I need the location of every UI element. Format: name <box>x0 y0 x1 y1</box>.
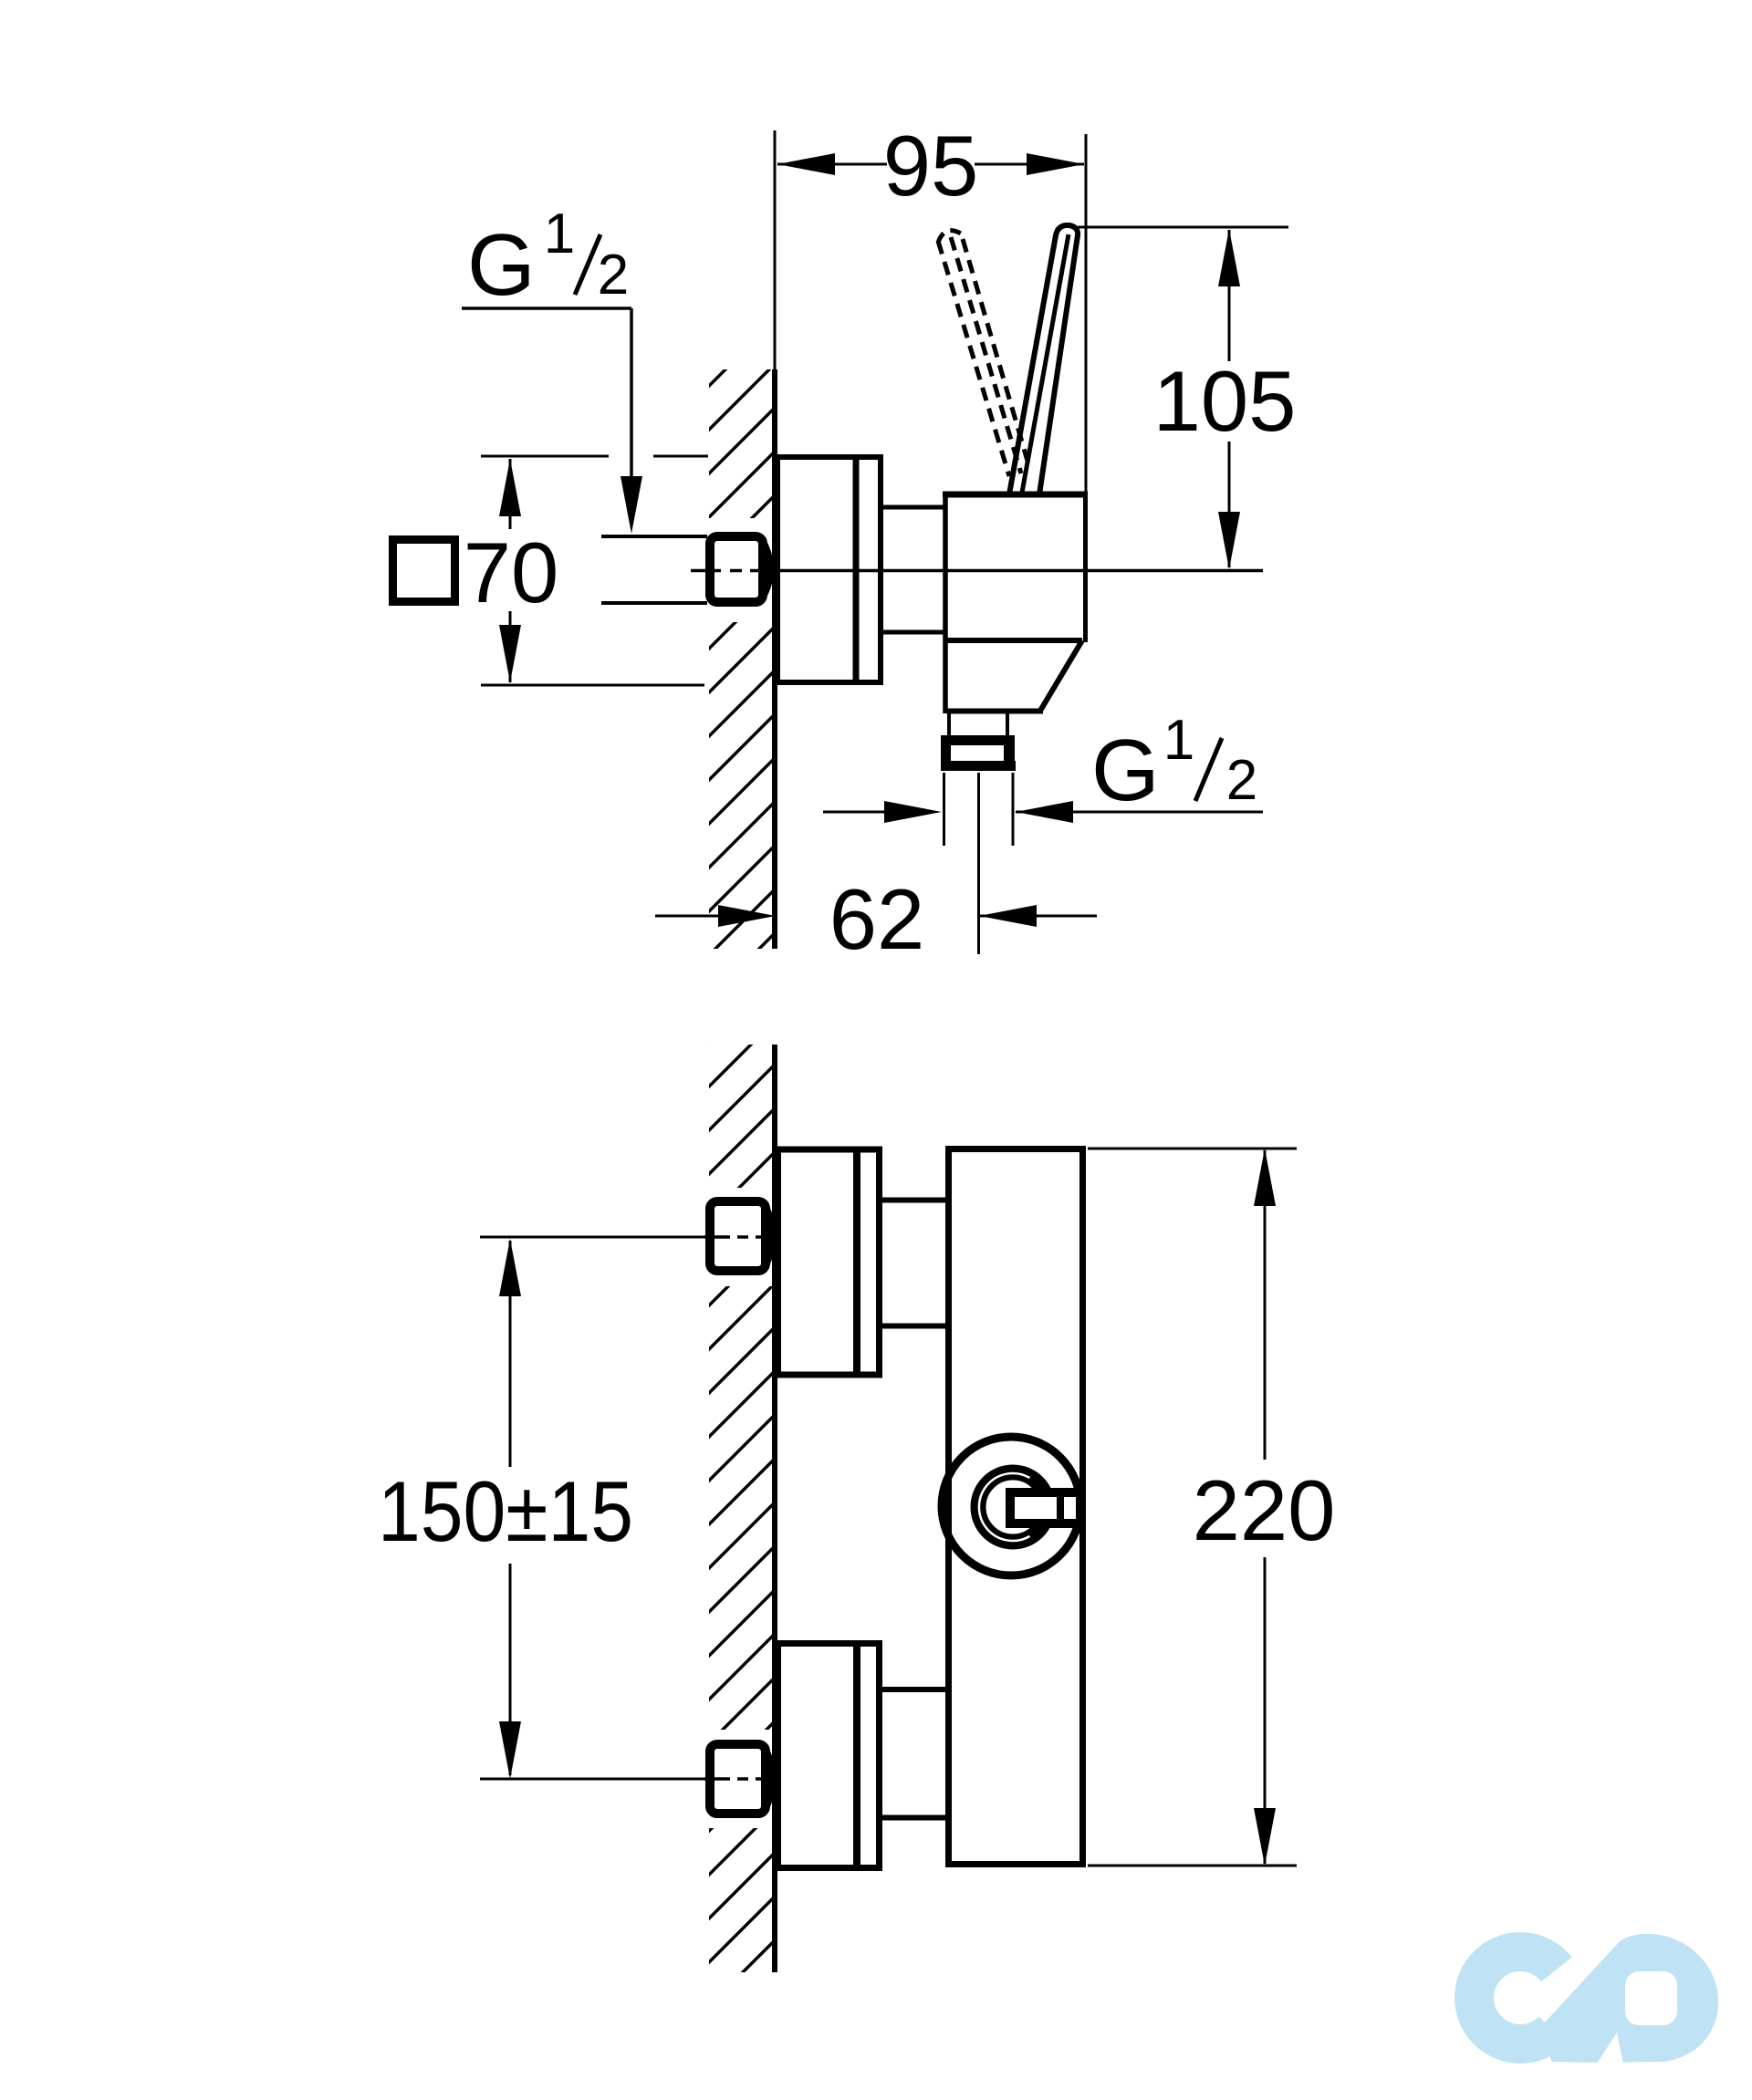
escutcheon flange side view <box>777 457 881 682</box>
upper nut chamfer arc <box>766 1208 772 1264</box>
lever dashed position line 1 <box>938 241 1009 476</box>
inlet pipe bottom line <box>601 601 707 605</box>
70 dim lower extension line <box>481 684 704 687</box>
G 1/2 lower dim right arrow <box>1016 801 1073 823</box>
105 dim top extension line <box>1078 226 1288 229</box>
hatch clear zone around top-view nut <box>689 518 772 622</box>
220 dim down arrow <box>1254 1808 1276 1866</box>
svg-text:150±15: 150±15 <box>378 1463 633 1559</box>
escutcheon inner line side view <box>853 458 860 681</box>
150 dim up arrow <box>499 1239 521 1296</box>
upper union nut front view <box>710 1201 766 1271</box>
body bottom edge side view <box>946 709 1043 714</box>
svg-text:105: 105 <box>1153 353 1297 449</box>
150 dim upper extension line <box>480 1236 704 1239</box>
150 dim line upper segment <box>509 1241 512 1467</box>
95 dim right extension line <box>1085 134 1088 493</box>
outlet nut left wall <box>941 743 951 763</box>
knob inner ring <box>978 1472 1048 1542</box>
union nut top view <box>710 536 763 602</box>
wall extension line (95 dim left extension) <box>774 130 777 369</box>
G 1/2 lower extension line left <box>943 773 945 846</box>
lower neck bottom line front view <box>881 1815 946 1821</box>
G 1/2 top leader arrow <box>620 476 642 534</box>
body mid line side view <box>946 638 1082 643</box>
upper escutcheon inner line <box>853 1148 860 1376</box>
105 dim up arrow <box>1218 229 1240 286</box>
neck top line side view <box>881 505 946 510</box>
neck bottom line side view <box>881 630 946 635</box>
G 1/2 lower dim line left <box>823 811 885 814</box>
main centre line top view <box>777 569 1263 573</box>
union nut chamfer arc top view <box>763 543 770 596</box>
svg-text:1: 1 <box>544 203 575 265</box>
wall face line top view <box>772 369 777 949</box>
outlet stub left line <box>947 713 951 737</box>
svg-text:220: 220 <box>1193 1462 1336 1558</box>
lever dashed position line 3 <box>963 239 1029 467</box>
150 dim line lower segment <box>509 1564 512 1775</box>
95 dim line left segment <box>777 163 887 166</box>
lower nut chamfer arc <box>766 1751 772 1807</box>
upper escutcheon front view <box>778 1149 880 1375</box>
G 1/2 lower label fraction slash <box>1195 738 1222 801</box>
upper neck top line front view <box>881 1198 946 1203</box>
150 dim lower extension line <box>480 1778 704 1781</box>
lever solid outline <box>1009 225 1078 494</box>
upper nut centre dash-dot <box>704 1235 777 1239</box>
outlet nut upper band <box>941 735 1015 745</box>
220 dim line upper segment <box>1264 1150 1267 1460</box>
logo letter D hole <box>1625 1971 1677 2025</box>
body left edge side view <box>943 493 948 713</box>
knob inner ring white arc <box>979 1473 1030 1541</box>
inlet pipe top line <box>601 535 707 538</box>
lower union nut front view <box>710 1744 766 1814</box>
G 1/2 lower extension line right <box>1012 773 1015 846</box>
220 dim upper extension line <box>1088 1148 1297 1150</box>
62 dim right arrow <box>979 905 1037 927</box>
lever dashed cap <box>938 231 961 243</box>
outlet stub right line <box>1006 713 1009 737</box>
62 dim left arrow <box>718 905 776 927</box>
knob handle tip window <box>1064 1497 1076 1519</box>
70 dim line lower segment <box>509 611 512 682</box>
svg-text:G: G <box>1091 722 1160 819</box>
lower escutcheon inner line <box>853 1642 860 1869</box>
95 dim line right segment <box>975 163 1084 166</box>
body top edge side view <box>943 492 1088 498</box>
70 dim up arrow <box>499 459 521 516</box>
hatch clear zone around upper nut bottom view <box>687 1188 772 1286</box>
svg-text:2: 2 <box>598 244 629 307</box>
wall hatching bottom view <box>709 1045 775 1972</box>
62 dim line right <box>979 915 1097 918</box>
wall hatching top view <box>709 369 775 949</box>
220 dim up arrow <box>1254 1149 1276 1206</box>
logo strand gap wedge <box>1593 2032 1624 2069</box>
logo letter C <box>1474 1951 1556 2043</box>
220 dim line lower segment <box>1264 1557 1267 1864</box>
G 1/2 lower dim line right <box>1016 811 1263 814</box>
faucet body front view <box>949 1149 1083 1865</box>
70 dim down arrow <box>499 625 521 682</box>
G 1/2 lower dim left arrow <box>884 801 942 823</box>
62 dim line left <box>655 915 719 918</box>
hose centre line <box>977 773 980 954</box>
G 1/2 top label fraction slash <box>575 234 600 295</box>
70 dim upper extension line segment b <box>653 455 708 458</box>
150 dim down arrow <box>499 1721 521 1779</box>
body chamfer side view <box>1040 640 1082 711</box>
knob handle outer <box>1006 1488 1084 1528</box>
knob outer circle <box>942 1437 1080 1575</box>
70 dim line upper segment <box>509 459 512 529</box>
svg-text:62: 62 <box>829 871 925 967</box>
lower nut centre dash-dot <box>704 1777 777 1781</box>
lower neck top line front view <box>881 1687 946 1692</box>
upper neck bottom line front view <box>881 1324 946 1329</box>
body right edge side view <box>1083 493 1088 642</box>
105 dim down arrow <box>1218 512 1240 569</box>
95 dim right arrow <box>1027 153 1084 175</box>
G 1/2 top leader underline <box>462 307 631 310</box>
svg-text:95: 95 <box>883 118 979 213</box>
wall face line bottom view <box>772 1045 777 1972</box>
logo sweep band and letter D <box>1544 1934 1718 2063</box>
nut centre dash-dot top view <box>691 569 769 573</box>
outlet nut lower band <box>941 761 1016 771</box>
knob handle window <box>1015 1497 1057 1519</box>
G 1/2 top leader vertical line <box>630 308 633 485</box>
lower escutcheon front view <box>778 1644 880 1868</box>
svg-text:2: 2 <box>1226 749 1257 812</box>
svg-text:1: 1 <box>1163 709 1194 772</box>
105 dim line lower segment <box>1228 442 1231 567</box>
square symbol <box>393 540 455 602</box>
outlet nut right wall <box>1004 743 1015 763</box>
svg-text:70: 70 <box>464 525 559 620</box>
lever dashed position line 2 <box>951 237 1021 473</box>
hatch clear zone around lower nut bottom view <box>687 1730 772 1828</box>
svg-text:G: G <box>467 216 536 314</box>
95 dim left arrow <box>777 153 835 175</box>
70 dim upper extension line segment a <box>481 455 609 458</box>
105 dim line upper segment <box>1228 230 1231 361</box>
220 dim lower extension line <box>1088 1865 1297 1867</box>
lever solid inner line <box>1022 234 1069 493</box>
